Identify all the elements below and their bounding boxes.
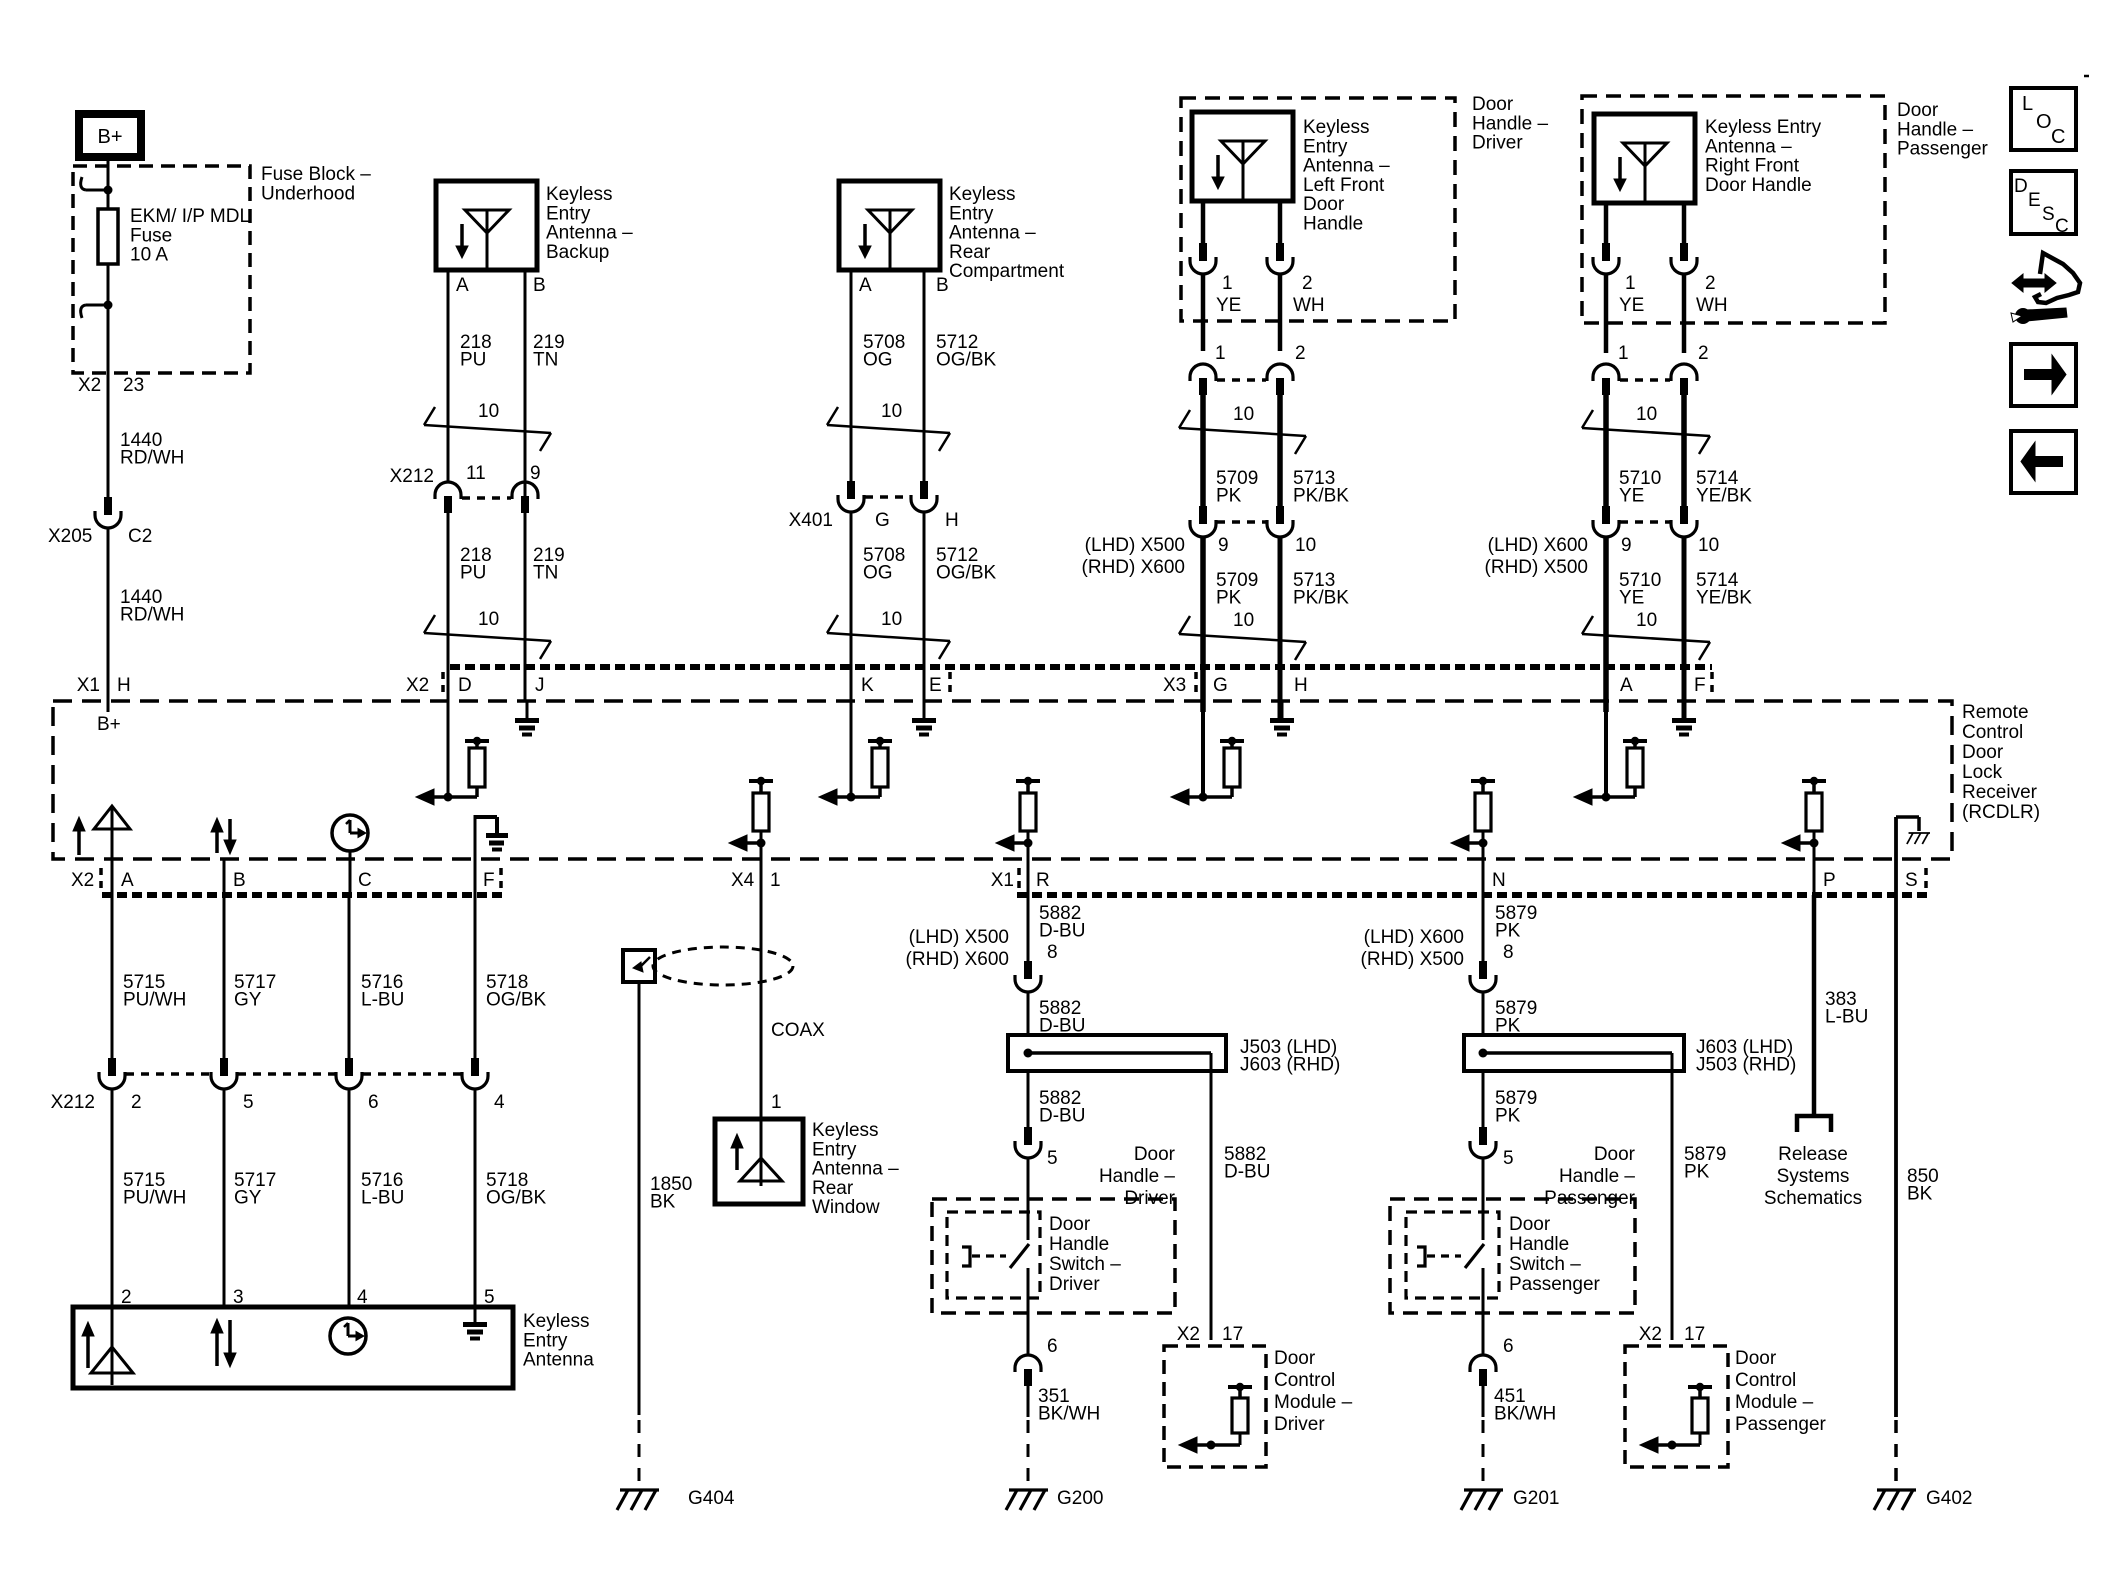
- svg-text:G201: G201: [1513, 1488, 1559, 1509]
- svg-text:YE: YE: [1216, 295, 1241, 316]
- svg-text:Keyless: Keyless: [949, 184, 1016, 205]
- svg-text:X205: X205: [48, 526, 92, 547]
- svg-text:RD/WH: RD/WH: [120, 448, 184, 469]
- svg-text:G404: G404: [688, 1488, 735, 1509]
- svg-text:(RCDLR): (RCDLR): [1962, 802, 2040, 823]
- svg-text:10 A: 10 A: [130, 245, 168, 266]
- svg-text:G200: G200: [1057, 1488, 1103, 1509]
- svg-text:1: 1: [1618, 343, 1629, 364]
- svg-text:Passenger: Passenger: [1509, 1274, 1601, 1295]
- svg-text:17: 17: [1222, 1324, 1243, 1345]
- svg-text:Left Front: Left Front: [1303, 175, 1385, 196]
- svg-text:Control: Control: [1735, 1370, 1796, 1391]
- svg-text:Passenger: Passenger: [1897, 139, 1989, 160]
- svg-text:PU/WH: PU/WH: [123, 1188, 186, 1209]
- svg-text:YE: YE: [1619, 486, 1644, 507]
- svg-text:GY: GY: [234, 1188, 262, 1209]
- svg-text:Entry: Entry: [812, 1139, 857, 1160]
- svg-text:Antenna: Antenna: [523, 1350, 594, 1371]
- svg-text:B: B: [233, 870, 246, 891]
- svg-text:Entry: Entry: [1303, 136, 1348, 157]
- svg-text:4: 4: [494, 1092, 505, 1113]
- svg-text:2: 2: [131, 1092, 142, 1113]
- svg-text:Door: Door: [1594, 1144, 1636, 1165]
- svg-text:B+: B+: [97, 714, 121, 735]
- svg-text:2: 2: [1302, 273, 1313, 294]
- svg-text:X1: X1: [991, 870, 1014, 891]
- svg-text:A: A: [456, 275, 469, 296]
- svg-text:9: 9: [530, 463, 541, 484]
- svg-text:G: G: [875, 510, 890, 531]
- svg-text:PU: PU: [460, 563, 486, 584]
- svg-text:1: 1: [1625, 273, 1636, 294]
- svg-text:10: 10: [881, 401, 902, 422]
- svg-text:1: 1: [1222, 273, 1233, 294]
- svg-text:D: D: [2014, 176, 2028, 197]
- svg-text:Receiver: Receiver: [1962, 782, 2038, 803]
- svg-text:1: 1: [771, 1092, 782, 1113]
- svg-text:G402: G402: [1926, 1488, 1972, 1509]
- svg-text:Handle –: Handle –: [1559, 1166, 1635, 1187]
- svg-text:OG/BK: OG/BK: [486, 1188, 547, 1209]
- svg-text:Rear: Rear: [949, 242, 991, 263]
- svg-text:Door: Door: [1472, 94, 1514, 115]
- svg-text:Switch –: Switch –: [1049, 1254, 1121, 1275]
- svg-text:J503 (RHD): J503 (RHD): [1696, 1055, 1796, 1076]
- svg-text:C: C: [2055, 216, 2069, 237]
- svg-text:WH: WH: [1293, 295, 1325, 316]
- svg-text:2: 2: [1295, 343, 1306, 364]
- svg-text:R: R: [1036, 870, 1050, 891]
- svg-text:TN: TN: [533, 350, 558, 371]
- svg-text:Entry: Entry: [546, 203, 591, 224]
- svg-text:OG/BK: OG/BK: [486, 990, 547, 1011]
- svg-text:PU: PU: [460, 350, 486, 371]
- svg-text:8: 8: [1047, 942, 1058, 963]
- svg-text:Backup: Backup: [546, 242, 609, 263]
- svg-text:Antenna –: Antenna –: [546, 223, 633, 244]
- svg-text:X2: X2: [71, 870, 94, 891]
- svg-text:OG/BK: OG/BK: [936, 563, 997, 584]
- svg-text:YE: YE: [1619, 295, 1644, 316]
- svg-text:D: D: [458, 675, 472, 696]
- svg-text:X2: X2: [78, 375, 101, 396]
- svg-text:X4: X4: [731, 870, 755, 891]
- svg-text:10: 10: [1636, 610, 1657, 631]
- svg-text:J603 (RHD): J603 (RHD): [1240, 1055, 1340, 1076]
- svg-text:Antenna –: Antenna –: [949, 223, 1036, 244]
- svg-text:Keyless: Keyless: [523, 1311, 590, 1332]
- svg-text:D-BU: D-BU: [1039, 921, 1085, 942]
- svg-text:Entry: Entry: [523, 1330, 568, 1351]
- svg-text:YE/BK: YE/BK: [1696, 486, 1752, 507]
- svg-text:Door: Door: [1735, 1348, 1777, 1369]
- svg-text:Handle –: Handle –: [1099, 1166, 1175, 1187]
- svg-text:EKM/ I/P MDL: EKM/ I/P MDL: [130, 206, 250, 227]
- svg-text:Handle –: Handle –: [1897, 119, 1973, 140]
- svg-text:PK/BK: PK/BK: [1293, 486, 1349, 507]
- svg-text:Rear: Rear: [812, 1178, 854, 1199]
- svg-text:Antenna –: Antenna –: [812, 1159, 899, 1180]
- svg-text:Door: Door: [1897, 100, 1939, 121]
- svg-text:L-BU: L-BU: [361, 1188, 404, 1209]
- svg-text:RD/WH: RD/WH: [120, 605, 184, 626]
- svg-text:B: B: [533, 275, 546, 296]
- svg-text:10: 10: [881, 609, 902, 630]
- svg-text:5: 5: [243, 1092, 254, 1113]
- svg-text:10: 10: [1295, 535, 1316, 556]
- svg-text:Driver: Driver: [1049, 1274, 1100, 1295]
- svg-text:X3: X3: [1163, 675, 1186, 696]
- svg-text:X212: X212: [51, 1092, 95, 1113]
- svg-text:Driver: Driver: [1472, 133, 1523, 154]
- svg-text:F: F: [1694, 675, 1706, 696]
- svg-text:S: S: [2042, 204, 2055, 225]
- svg-text:C2: C2: [128, 526, 152, 547]
- svg-text:Underhood: Underhood: [261, 183, 355, 204]
- svg-text:X212: X212: [390, 466, 434, 487]
- svg-text:1: 1: [770, 870, 781, 891]
- svg-text:Keyless: Keyless: [1303, 117, 1370, 138]
- svg-text:PK: PK: [1216, 588, 1242, 609]
- svg-text:(RHD) X600: (RHD) X600: [906, 949, 1009, 970]
- svg-text:H: H: [117, 675, 131, 696]
- svg-text:X1: X1: [77, 675, 100, 696]
- svg-text:Lock: Lock: [1962, 762, 2003, 783]
- svg-text:OG: OG: [863, 350, 893, 371]
- svg-text:PK: PK: [1684, 1162, 1710, 1183]
- svg-text:(LHD) X600: (LHD) X600: [1364, 927, 1464, 948]
- svg-text:BK: BK: [1907, 1184, 1933, 1205]
- svg-text:Door: Door: [1274, 1348, 1316, 1369]
- svg-text:Handle: Handle: [1509, 1234, 1569, 1255]
- svg-text:A: A: [121, 870, 134, 891]
- svg-text:Control: Control: [1274, 1370, 1335, 1391]
- svg-text:C: C: [358, 870, 372, 891]
- svg-text:D-BU: D-BU: [1039, 1106, 1085, 1127]
- svg-text:Keyless Entry: Keyless Entry: [1705, 117, 1822, 138]
- svg-text:D-BU: D-BU: [1224, 1162, 1270, 1183]
- svg-text:PK: PK: [1216, 486, 1242, 507]
- svg-text:Antenna –: Antenna –: [1705, 136, 1792, 157]
- svg-text:(RHD) X600: (RHD) X600: [1082, 557, 1185, 578]
- svg-text:10: 10: [1698, 535, 1719, 556]
- svg-text:WH: WH: [1696, 295, 1728, 316]
- svg-text:H: H: [945, 510, 959, 531]
- svg-text:YE: YE: [1619, 588, 1644, 609]
- svg-text:Door: Door: [1962, 742, 2004, 763]
- svg-text:6: 6: [368, 1092, 379, 1113]
- svg-text:Right Front: Right Front: [1705, 156, 1800, 177]
- svg-text:O: O: [2036, 111, 2052, 133]
- svg-text:5: 5: [1047, 1148, 1058, 1169]
- svg-text:A: A: [859, 275, 872, 296]
- svg-text:(LHD) X600: (LHD) X600: [1488, 535, 1588, 556]
- svg-text:Compartment: Compartment: [949, 261, 1065, 282]
- svg-text:Door: Door: [1303, 194, 1345, 215]
- svg-text:X2: X2: [1639, 1324, 1662, 1345]
- svg-text:P: P: [1823, 870, 1836, 891]
- svg-text:X2: X2: [406, 675, 429, 696]
- svg-text:Keyless: Keyless: [546, 184, 613, 205]
- svg-text:Handle: Handle: [1049, 1234, 1109, 1255]
- svg-text:Fuse: Fuse: [130, 225, 172, 246]
- svg-text:10: 10: [478, 401, 499, 422]
- svg-text:Keyless: Keyless: [812, 1120, 879, 1141]
- svg-text:A: A: [1620, 675, 1633, 696]
- svg-text:PU/WH: PU/WH: [123, 990, 186, 1011]
- svg-text:10: 10: [1636, 404, 1657, 425]
- svg-text:TN: TN: [533, 563, 558, 584]
- svg-text:Release: Release: [1778, 1144, 1848, 1165]
- svg-text:(RHD) X500: (RHD) X500: [1485, 557, 1588, 578]
- svg-text:BK/WH: BK/WH: [1494, 1404, 1556, 1425]
- svg-text:Schematics: Schematics: [1764, 1188, 1862, 1209]
- svg-text:Door: Door: [1509, 1214, 1551, 1235]
- svg-text:BK/WH: BK/WH: [1038, 1404, 1100, 1425]
- svg-text:10: 10: [1233, 404, 1254, 425]
- svg-text:(RHD) X500: (RHD) X500: [1361, 949, 1464, 970]
- svg-text:Handle –: Handle –: [1472, 113, 1548, 134]
- svg-text:Door: Door: [1134, 1144, 1176, 1165]
- svg-text:Driver: Driver: [1274, 1414, 1325, 1435]
- svg-text:OG: OG: [863, 563, 893, 584]
- svg-text:1: 1: [1215, 343, 1226, 364]
- svg-text:L-BU: L-BU: [1825, 1007, 1868, 1028]
- svg-text:E: E: [929, 675, 942, 696]
- svg-text:PK/BK: PK/BK: [1293, 588, 1349, 609]
- svg-text:E: E: [2028, 190, 2041, 211]
- svg-text:5: 5: [1503, 1148, 1514, 1169]
- svg-text:Switch –: Switch –: [1509, 1254, 1581, 1275]
- svg-text:F: F: [483, 870, 495, 891]
- svg-text:X401: X401: [789, 510, 833, 531]
- svg-text:GY: GY: [234, 990, 262, 1011]
- svg-text:B+: B+: [97, 126, 122, 148]
- svg-text:COAX: COAX: [771, 1020, 825, 1041]
- svg-text:H: H: [1294, 675, 1308, 696]
- svg-text:Antenna –: Antenna –: [1303, 156, 1390, 177]
- svg-text:2: 2: [1705, 273, 1716, 294]
- svg-text:Module –: Module –: [1735, 1392, 1814, 1413]
- svg-text:G: G: [1213, 675, 1228, 696]
- svg-text:Fuse Block –: Fuse Block –: [261, 164, 371, 185]
- svg-text:Module –: Module –: [1274, 1392, 1353, 1413]
- svg-text:N: N: [1492, 870, 1506, 891]
- svg-text:BK: BK: [650, 1192, 676, 1213]
- svg-text:X2: X2: [1177, 1324, 1200, 1345]
- svg-text:10: 10: [1233, 610, 1254, 631]
- svg-text:23: 23: [123, 375, 144, 396]
- svg-text:Passenger: Passenger: [1735, 1414, 1827, 1435]
- svg-text:PK: PK: [1495, 921, 1521, 942]
- svg-text:Handle: Handle: [1303, 214, 1363, 235]
- svg-text:6: 6: [1047, 1336, 1058, 1357]
- svg-text:L: L: [2022, 93, 2033, 115]
- svg-text:17: 17: [1684, 1324, 1705, 1345]
- svg-text:Window: Window: [812, 1197, 880, 1218]
- svg-text:K: K: [861, 675, 874, 696]
- svg-text:9: 9: [1218, 535, 1229, 556]
- svg-text:B: B: [936, 275, 949, 296]
- svg-text:(LHD) X500: (LHD) X500: [1085, 535, 1185, 556]
- svg-text:PK: PK: [1495, 1106, 1521, 1127]
- svg-text:Door: Door: [1049, 1214, 1091, 1235]
- svg-text:2: 2: [1698, 343, 1709, 364]
- svg-text:9: 9: [1621, 535, 1632, 556]
- svg-text:J: J: [535, 675, 545, 696]
- svg-text:11: 11: [466, 463, 486, 484]
- svg-text:6: 6: [1503, 1336, 1514, 1357]
- svg-text:Remote: Remote: [1962, 702, 2029, 723]
- svg-text:8: 8: [1503, 942, 1514, 963]
- svg-text:Entry: Entry: [949, 203, 994, 224]
- svg-text:(LHD) X500: (LHD) X500: [909, 927, 1009, 948]
- svg-text:OG/BK: OG/BK: [936, 350, 997, 371]
- svg-text:L-BU: L-BU: [361, 990, 404, 1011]
- svg-text:Systems: Systems: [1777, 1166, 1850, 1187]
- svg-text:Door Handle: Door Handle: [1705, 175, 1812, 196]
- svg-text:S: S: [1905, 870, 1918, 891]
- svg-text:C: C: [2051, 126, 2065, 148]
- svg-text:10: 10: [478, 609, 499, 630]
- svg-text:YE/BK: YE/BK: [1696, 588, 1752, 609]
- svg-text:Control: Control: [1962, 722, 2023, 743]
